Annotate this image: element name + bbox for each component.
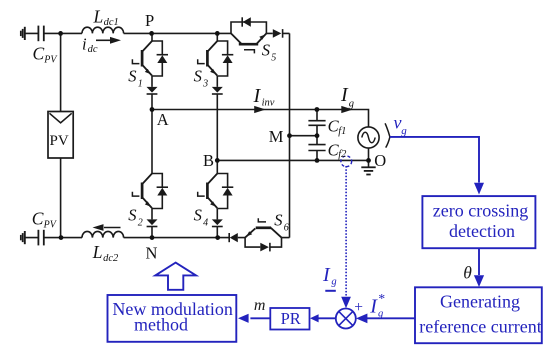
svg-text:g: g [401,125,407,137]
svg-text:inv: inv [262,98,275,109]
svg-text:Generating: Generating [440,292,520,312]
svg-text:PR: PR [281,309,301,328]
svg-text:6: 6 [284,222,289,233]
svg-text:P: P [145,11,154,30]
svg-text:m: m [254,297,266,314]
svg-text:1: 1 [138,78,143,89]
svg-text:N: N [146,244,158,263]
svg-text:C: C [33,44,45,64]
svg-text:dc2: dc2 [103,253,119,264]
svg-text:S: S [128,206,136,225]
svg-text:A: A [157,110,169,129]
svg-text:I: I [322,264,331,286]
svg-text:4: 4 [203,217,208,228]
svg-text:S: S [194,67,202,86]
svg-text:g: g [378,309,383,320]
svg-text:g: g [349,99,354,110]
svg-text:PV: PV [43,55,58,66]
svg-text:PV: PV [43,219,58,230]
svg-text:+: + [354,299,363,316]
svg-text:S: S [274,211,282,230]
svg-text:I: I [369,295,378,317]
svg-text:L: L [93,7,104,27]
svg-text:O: O [374,151,386,170]
svg-text:method: method [134,314,188,334]
svg-text:v: v [394,112,402,132]
svg-text:*: * [378,291,385,306]
svg-text:PV: PV [50,133,69,149]
svg-text:S: S [262,41,270,60]
svg-text:5: 5 [271,52,276,63]
svg-text:dc: dc [88,44,98,55]
svg-text:2: 2 [138,217,143,228]
svg-text:dc1: dc1 [104,17,119,28]
svg-text:C: C [32,208,44,228]
svg-text:S: S [128,67,136,86]
svg-text:detection: detection [449,221,515,241]
svg-text:i: i [82,34,87,53]
svg-text:g: g [331,277,336,288]
svg-text:M: M [269,127,284,146]
svg-text:S: S [194,206,202,225]
svg-text:L: L [92,242,103,262]
svg-text:f1: f1 [338,126,346,137]
svg-text:θ: θ [463,262,472,282]
svg-text:I: I [253,85,262,107]
svg-text:zero crossing: zero crossing [433,200,528,220]
svg-text:reference current: reference current [419,317,541,337]
svg-text:3: 3 [202,78,208,89]
svg-text:B: B [203,151,214,170]
svg-text:I: I [340,84,349,106]
svg-text:f2: f2 [338,149,347,160]
